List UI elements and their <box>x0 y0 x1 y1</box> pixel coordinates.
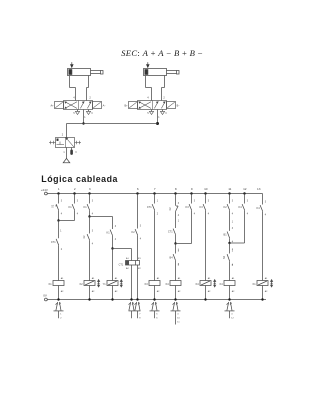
svg-text:12: 12 <box>243 187 247 191</box>
svg-text:A−: A− <box>103 105 107 108</box>
coil K4 <box>166 277 182 293</box>
node rail junction wire 9 <box>190 192 192 194</box>
muffler on valve V3 port 3 <box>70 148 77 155</box>
contact K1 NO (wire 3) <box>84 201 94 216</box>
wire number 1 <box>58 187 60 191</box>
wire number 7 <box>154 187 156 191</box>
wire number 2 <box>74 187 76 191</box>
node rail 0V at wire 11 <box>228 298 230 300</box>
heading Logica cableada <box>41 174 118 184</box>
svg-text:9: 9 <box>191 187 193 191</box>
wire rung 6 into timer <box>137 236 139 261</box>
label 0V <box>43 293 47 297</box>
svg-text:11: 11 <box>228 187 231 191</box>
wire number 6 <box>137 187 139 191</box>
node merge wires 1-2 <box>57 219 59 221</box>
wire rung 11 seg4 <box>230 243 234 254</box>
contact CT1 (wire 8) <box>168 229 176 235</box>
wire rung 6 upper <box>137 194 139 229</box>
wire rung 3 middle <box>89 217 91 234</box>
contact CT1 timer (wire 1) <box>51 239 63 251</box>
wire supply bus drop to valve V3 port 2 <box>66 124 68 138</box>
contact K2 NC (wire 8) <box>169 203 180 217</box>
timer CT1 block <box>119 257 142 270</box>
node rail junction wire 6 <box>136 192 138 194</box>
wire rung 9 upper <box>191 194 193 204</box>
wire rung 3 upper <box>89 194 91 204</box>
contact K1 NO (wire 2) <box>69 201 79 216</box>
node rail junction wire 12 <box>243 192 245 194</box>
wire coil to 0V wire 11 <box>229 286 231 300</box>
node merge wires 8-9 <box>174 242 176 244</box>
wire rung 8 seg4 <box>176 244 180 254</box>
svg-text:SEC: A + A − B + B −: SEC: A + A − B + B − <box>121 48 203 58</box>
reset symbol coil wire 13 <box>271 280 273 287</box>
svg-text:13: 13 <box>257 187 261 191</box>
wire branch 3 to 4 horizontal <box>90 216 113 218</box>
node merge wires 11-12 <box>228 242 230 244</box>
node supply junction at valve V1 <box>82 122 84 124</box>
svg-text:2: 2 <box>74 187 76 191</box>
wire rung 3 mid <box>89 211 91 217</box>
contact S1 (pushbutton, wire 1) <box>52 201 63 216</box>
svg-text:3: 3 <box>89 187 91 191</box>
wire merge 8-9 horizontal <box>176 243 192 245</box>
wire rung 13 upper <box>262 194 264 205</box>
node rail junction wire 8 <box>174 192 176 194</box>
svg-text:B−: B− <box>177 105 181 108</box>
wire rung 12 lower <box>244 211 246 244</box>
cylinder B <box>144 62 180 75</box>
contact B4 limit switch (wire 8) <box>170 251 180 267</box>
title text SEC formula <box>121 48 203 58</box>
wire supply bus horizontal <box>67 123 158 125</box>
wire top rail +24V <box>52 193 263 195</box>
node rail 0V at timer right <box>136 298 138 300</box>
wire number 11 <box>228 187 231 191</box>
node rail 0V at wire 13 <box>261 298 263 300</box>
label wire segment 1 <box>60 231 62 233</box>
wire number 3 <box>89 187 91 191</box>
wire rung 8 upper <box>175 194 177 206</box>
node rail 0V at wire 10 <box>204 298 206 300</box>
node rail 0V at wire 3 <box>88 298 90 300</box>
wire rung 4 upper <box>112 217 114 230</box>
wire rung 11 seg2 <box>230 211 234 231</box>
wire merge 11-12 horizontal <box>230 242 245 244</box>
solenoid plug Y3 <box>171 302 181 325</box>
wire rung 7 lower <box>154 211 156 281</box>
solenoid plug Y4 <box>225 302 235 320</box>
wire coil K3 to 0V <box>154 286 156 300</box>
contact CT1 NO (wire 7) <box>147 201 159 216</box>
wire timer CT1 right pin to 0V <box>137 265 139 300</box>
wire number 13 <box>257 187 261 191</box>
wire rung 8 seg3 <box>175 235 177 244</box>
node rail 0V at wire 8 <box>174 298 176 300</box>
label +24V <box>41 188 48 192</box>
svg-text:1: 1 <box>58 187 60 191</box>
reset symbol coil wire 10 <box>214 280 216 287</box>
wire rung 11 upper <box>229 194 231 204</box>
wire rung 8 seg2 <box>176 212 180 228</box>
contact B1 limit switch (wire 11) <box>224 228 234 244</box>
svg-text:0V: 0V <box>43 293 47 297</box>
wire rung 11 lower <box>229 262 231 281</box>
terminal +24V <box>45 192 53 195</box>
wire rung 2 upper <box>74 194 76 204</box>
node rail junction wire 3 <box>88 192 90 194</box>
coil Y2 (solenoid) <box>196 277 212 293</box>
cylinder A <box>68 62 104 75</box>
valve V1 (5/2, cylinder A) <box>50 96 106 118</box>
coil Y4 (solenoid) <box>253 277 269 293</box>
solenoid plug timer <box>129 302 142 320</box>
wire rung 4 mid <box>112 236 114 249</box>
terminal 0V <box>45 298 53 301</box>
wire coil to 0V wire 10 <box>205 286 207 300</box>
contact K2 NO (wire 11) <box>224 201 234 216</box>
wire rung 8 lower <box>175 261 177 281</box>
reset symbol coil K2 <box>98 280 100 287</box>
node rail junction wire 2 <box>73 192 75 194</box>
wire coil to 0V wire 13 <box>262 286 264 300</box>
svg-text:CT1: CT1 <box>119 264 124 267</box>
svg-text:10: 10 <box>204 187 208 191</box>
solenoid plug Y1 <box>54 302 64 320</box>
svg-text:6: 6 <box>137 187 139 191</box>
coil Y1 (solenoid) <box>103 277 119 293</box>
coil K5 <box>220 277 236 293</box>
wire number 9 <box>191 187 193 191</box>
wire number 8 <box>175 187 177 191</box>
svg-text:A+: A+ <box>50 105 54 108</box>
svg-text:Lógica cableada: Lógica cableada <box>41 174 118 184</box>
valve V3 (3/2 supply valve) <box>49 138 81 148</box>
tube cylinder B right port to valve V2 port 2 <box>162 76 165 101</box>
svg-text:CT1: CT1 <box>147 206 152 209</box>
wire rung 1 middle <box>58 221 60 239</box>
contact K2 NO (wire 3 lower) <box>83 231 94 246</box>
node supply junction at valve V2 <box>156 122 159 125</box>
node rail junction wire 10 <box>204 192 206 194</box>
contact K4 NO (wire 12) <box>239 201 249 216</box>
contact K3 NO (wire 9) <box>186 201 196 216</box>
wire rung 12 upper <box>244 194 246 204</box>
wire merge 1-2 horizontal <box>59 220 75 222</box>
wire branch 4 to timer horizontal <box>113 248 132 250</box>
coil K2 (solenoid) <box>80 277 96 293</box>
svg-text:CT1: CT1 <box>51 241 56 244</box>
wire valve V1 port1 to supply bus <box>83 110 85 124</box>
tube cylinder B left port to valve V2 port 4 <box>146 76 152 101</box>
wire rung 7 upper <box>154 194 156 204</box>
coil K3 <box>145 277 161 293</box>
contact K1 NO (wire 4) <box>107 226 117 241</box>
wire coil Y1 to 0V <box>112 286 114 300</box>
contact K3 NO (wire 10) <box>200 201 210 216</box>
wire coil K1 to 0V <box>58 286 60 300</box>
wire coil K4 to 0V <box>175 286 177 300</box>
tube cylinder A right port to valve V1 port 2 <box>87 76 89 101</box>
node rail 0V at wire 7 <box>153 298 155 300</box>
node rail junction wire 1 <box>57 192 59 194</box>
contact K4 NO (wire 13) <box>257 202 267 217</box>
coil K1 <box>49 277 65 293</box>
wire rung 10 upper <box>205 194 207 204</box>
wire rung 3 lower <box>89 241 91 281</box>
exhaust port 1 valve V3 <box>63 152 65 154</box>
wire timer CT1 left pin to 0V <box>131 265 133 300</box>
svg-text:+24V: +24V <box>41 188 48 192</box>
wire valve V2 port1 to supply bus <box>157 110 159 124</box>
tube cylinder A left port to valve V1 port 4 <box>70 76 76 101</box>
valve V2 (5/2, cylinder B) <box>124 96 180 118</box>
node rail junction wire 7 <box>153 192 155 194</box>
reset symbol coil Y1 <box>120 280 122 287</box>
contact S0 (wire 11) <box>223 251 234 267</box>
wire rung 11 seg3 <box>229 238 231 243</box>
wire coil K2 to 0V <box>89 286 91 300</box>
wire rung 10 lower <box>205 211 207 281</box>
wire number 12 <box>243 187 247 191</box>
wire into timer CT1 left pin <box>131 249 133 261</box>
wire rung 1 upper <box>58 194 60 204</box>
contact K2 NO (wire 6) <box>132 226 142 241</box>
solenoid plug Y2 <box>150 302 160 320</box>
wire bottom rail 0V <box>52 299 266 301</box>
wire rung 2 lower <box>74 211 76 221</box>
port label 2 valve V3 <box>62 134 64 137</box>
node rail 0V at wire 4 <box>111 298 113 300</box>
exhaust triangle valve V3 <box>63 148 70 163</box>
wire number 10 <box>204 187 208 191</box>
node branch wire 3 <box>88 215 90 217</box>
node branch wire 4 <box>111 247 113 249</box>
wire rung 1 lower <box>58 245 60 280</box>
node rail 0V at timer left <box>130 298 132 300</box>
svg-text:8: 8 <box>175 187 177 191</box>
svg-text:7: 7 <box>154 187 156 191</box>
node rail junction wire 11 <box>228 192 230 194</box>
svg-text:CT1: CT1 <box>168 231 173 234</box>
svg-text:B+: B+ <box>124 105 128 108</box>
node rail 0V at wire 1 <box>57 298 59 300</box>
wire rung 1 to merge node <box>58 211 60 221</box>
wire rung 4 lower <box>112 249 114 281</box>
wire rung 9 lower <box>191 211 193 244</box>
wire rung 13 lower <box>262 212 264 281</box>
